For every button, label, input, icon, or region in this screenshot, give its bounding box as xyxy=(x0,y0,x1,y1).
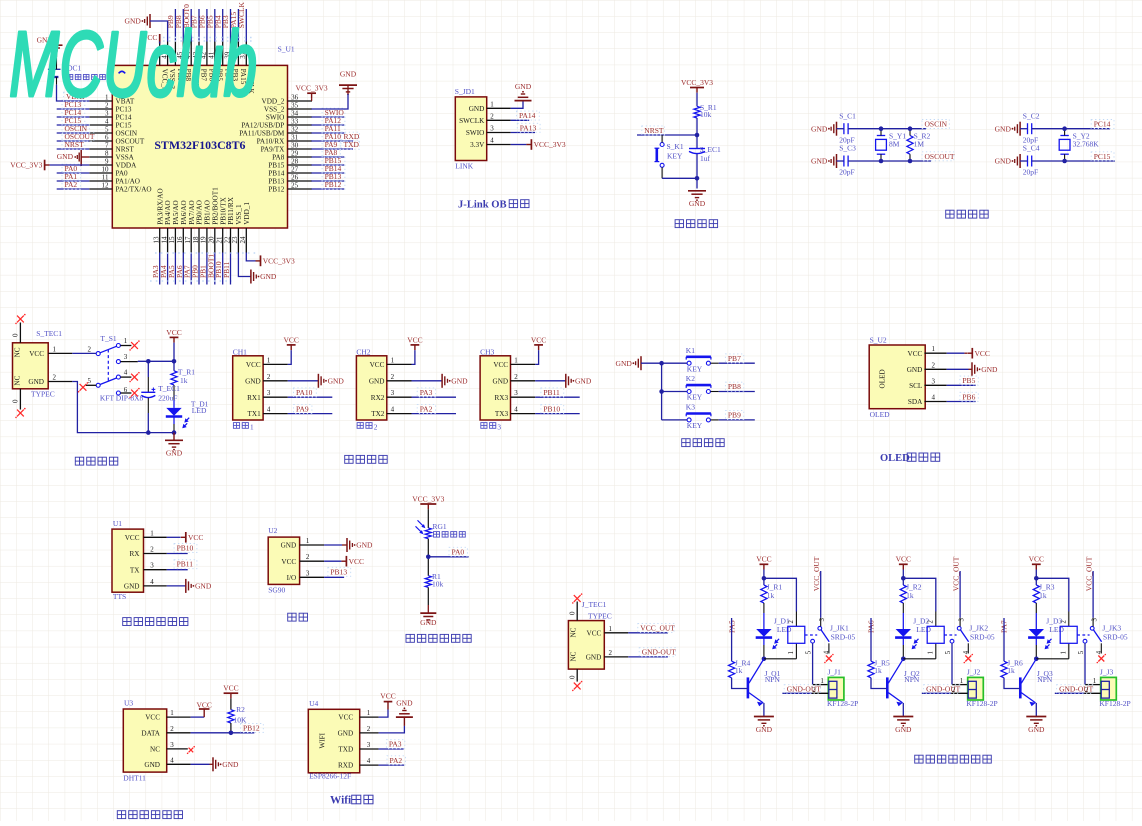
U1 pin 14 PA4/AO xyxy=(160,200,172,252)
U1 pin 24 VDD_1 xyxy=(239,202,251,253)
relay J_JK2 SRD-05 coil xyxy=(927,620,995,655)
svg-text:PA14: PA14 xyxy=(519,111,536,120)
svg-text:0: 0 xyxy=(568,675,576,679)
power VCC_3V3 at S_JD1 pin 4 xyxy=(511,139,566,150)
svg-text:VCC_3V3: VCC_3V3 xyxy=(412,494,444,503)
svg-text:GND: GND xyxy=(575,376,592,385)
wire xyxy=(1035,603,1037,629)
svg-text:2: 2 xyxy=(53,374,57,382)
node PA0 xyxy=(449,547,467,556)
node PB13 xyxy=(322,172,345,181)
svg-text:VCC: VCC xyxy=(281,558,296,566)
wire xyxy=(159,42,161,44)
svg-text:S_U1: S_U1 xyxy=(278,44,295,53)
svg-text:35: 35 xyxy=(291,101,299,109)
U1 pin 30 PA9/TX xyxy=(261,141,312,153)
svg-text:2: 2 xyxy=(88,346,92,354)
node PB10 xyxy=(214,261,223,278)
node PB8 xyxy=(174,15,183,28)
svg-text:4: 4 xyxy=(105,117,109,125)
node PA2 xyxy=(412,404,457,413)
svg-text:1: 1 xyxy=(170,709,174,717)
wire xyxy=(426,539,469,576)
svg-text:GND: GND xyxy=(1028,725,1045,734)
svg-text:2: 2 xyxy=(170,725,174,733)
S_JD1 pin 4 3.3V xyxy=(470,137,511,150)
svg-text:VCC_OUT: VCC_OUT xyxy=(1085,556,1094,591)
svg-text:WIFI: WIFI xyxy=(319,732,327,748)
LED J_D1 xyxy=(756,617,792,650)
ground at top-left with battery DC1 xyxy=(37,36,63,58)
power VCC_3V3 at U1 pin 24 VDD_1 xyxy=(246,253,295,267)
ground relay 1 xyxy=(754,717,774,734)
svg-text:20pF: 20pF xyxy=(1023,168,1038,177)
svg-text:J_J1: J_J1 xyxy=(828,668,842,677)
svg-text:1: 1 xyxy=(490,100,494,108)
node PA2 xyxy=(62,180,80,189)
svg-text:7: 7 xyxy=(105,141,109,149)
section title serial circuit xyxy=(345,455,388,463)
svg-text:4: 4 xyxy=(963,650,970,654)
ground serial xyxy=(412,374,469,388)
wire xyxy=(57,132,90,134)
battery DC1 (coin cell holder) xyxy=(48,57,105,85)
svg-text:GND-OUT: GND-OUT xyxy=(787,685,822,694)
svg-text:RXD: RXD xyxy=(338,762,353,770)
node PB9 xyxy=(719,411,755,420)
ground crystal bottom xyxy=(811,154,836,168)
svg-text:S_C2: S_C2 xyxy=(1023,111,1040,120)
section title power circuit xyxy=(75,457,118,465)
U1 pin 32 PA11/USB/DM xyxy=(239,125,312,137)
svg-text:PB13: PB13 xyxy=(268,178,284,186)
svg-text:U4: U4 xyxy=(309,699,318,708)
node PB15 xyxy=(322,156,345,165)
svg-text:NC: NC xyxy=(14,347,22,357)
wire xyxy=(57,108,90,110)
svg-text:36: 36 xyxy=(291,93,299,101)
no-connect U3 pin 3 xyxy=(187,746,195,754)
svg-text:VCC: VCC xyxy=(407,335,422,344)
svg-text:0: 0 xyxy=(568,611,576,615)
svg-text:10k: 10k xyxy=(700,110,712,119)
S_JD1 pin 1 GND xyxy=(469,100,511,113)
node PB5 xyxy=(205,15,214,28)
power VCC serial xyxy=(283,335,298,364)
wire xyxy=(198,9,200,42)
node OSCOUT xyxy=(62,132,95,141)
svg-text:6: 6 xyxy=(105,133,109,141)
svg-text:VDD_1: VDD_1 xyxy=(243,202,251,225)
section title voice output module xyxy=(123,618,188,626)
node SWIO xyxy=(322,108,345,117)
power VCC pullup xyxy=(223,684,238,699)
node PA15 xyxy=(229,12,238,29)
svg-text:4: 4 xyxy=(124,369,128,377)
svg-text:1k: 1k xyxy=(906,591,914,600)
wire xyxy=(511,132,535,134)
svg-text:30: 30 xyxy=(291,141,299,149)
U1 pin 40 PB4 xyxy=(216,42,232,82)
node RXD xyxy=(341,132,360,141)
U1 pin 11 PA1/AO xyxy=(89,173,140,185)
svg-text:PB15: PB15 xyxy=(268,162,284,170)
svg-text:2: 2 xyxy=(788,620,795,624)
U1 pin 9 VDDA xyxy=(89,157,137,169)
svg-text:OSCOUT: OSCOUT xyxy=(925,152,955,161)
svg-text:VSS_2: VSS_2 xyxy=(264,106,285,114)
wire xyxy=(150,38,256,282)
wire xyxy=(57,180,90,182)
node OSCIN xyxy=(62,124,89,133)
svg-text:SCL: SCL xyxy=(909,382,922,390)
svg-text:S_C4: S_C4 xyxy=(1023,144,1040,153)
svg-text:VCC: VCC xyxy=(338,714,353,722)
ground crystal top xyxy=(811,122,836,136)
U1 pin 17 PA7/AO xyxy=(184,200,196,252)
wire xyxy=(696,93,698,107)
wire xyxy=(172,417,177,435)
power VCC serial xyxy=(407,335,422,364)
svg-text:26: 26 xyxy=(291,173,299,181)
U1 pin 6 OSCOUT xyxy=(89,133,145,145)
relay J_JK3 switch xyxy=(1078,618,1103,655)
svg-text:5: 5 xyxy=(105,125,109,133)
node VCC_OUT relay 2 xyxy=(952,556,961,626)
node PA9 xyxy=(288,404,333,413)
svg-text:J_J3: J_J3 xyxy=(1100,668,1114,677)
node GND-OUT relay 1 xyxy=(782,685,828,694)
power VCC at U1 pin 48 xyxy=(142,33,160,44)
node PB11 xyxy=(222,261,231,278)
U1 pin 1 VBAT xyxy=(89,93,135,105)
svg-text:VDD_2: VDD_2 xyxy=(262,98,285,106)
ground relay 3 xyxy=(1026,717,1046,734)
svg-text:RX3: RX3 xyxy=(495,394,509,402)
U1 pin 22 PB11/RX xyxy=(223,196,235,252)
section title reset circuit xyxy=(675,220,718,228)
resistor R1 10k xyxy=(425,572,443,589)
wire xyxy=(206,9,208,42)
svg-text:1: 1 xyxy=(391,356,395,364)
U1 pin 2 PC13 xyxy=(89,101,132,113)
resistor R2 10K xyxy=(228,698,247,724)
U1 pin 27 PB14 xyxy=(268,165,312,177)
svg-text:33: 33 xyxy=(291,117,299,125)
node PB4 xyxy=(213,15,222,28)
svg-text:TTS: TTS xyxy=(113,592,126,601)
no-connect relay pin 4 xyxy=(1097,654,1107,664)
svg-text:PA7/AO: PA7/AO xyxy=(188,200,196,225)
wire xyxy=(174,9,176,42)
U1 pin 26 PB13 xyxy=(268,173,312,185)
svg-text:2: 2 xyxy=(609,649,613,657)
node BOOT0 xyxy=(182,4,191,28)
svg-text:PB9: PB9 xyxy=(728,411,741,420)
node PA10 xyxy=(288,388,333,397)
svg-text:2: 2 xyxy=(391,373,395,381)
svg-text:J_JK2: J_JK2 xyxy=(969,623,988,632)
ground at S_U2 pin 2 xyxy=(947,362,998,376)
svg-text:PB2/BOOT1: PB2/BOOT1 xyxy=(211,187,219,225)
svg-text:VCC: VCC xyxy=(349,557,364,566)
U1 pin 18 PB0/AO xyxy=(192,200,204,252)
ground serial xyxy=(535,374,592,388)
svg-text:S_U2: S_U2 xyxy=(870,335,887,344)
svg-text:32: 32 xyxy=(291,125,299,133)
svg-text:PC15: PC15 xyxy=(1094,152,1111,161)
node PA0 xyxy=(62,164,80,173)
wire xyxy=(311,98,313,101)
svg-text:SWIO: SWIO xyxy=(466,129,484,137)
section title light collection circuit xyxy=(406,634,471,642)
svg-text:GND: GND xyxy=(907,366,923,374)
svg-text:DATA: DATA xyxy=(141,729,160,737)
svg-text:PB14: PB14 xyxy=(268,170,284,178)
svg-text:PB10/TX: PB10/TX xyxy=(219,196,227,224)
power VCC at S_U2 pin 1 xyxy=(947,348,990,359)
node PA6 xyxy=(175,265,184,278)
wire xyxy=(198,253,200,285)
wire xyxy=(1032,126,1115,163)
wire xyxy=(150,21,168,42)
ground crystal bottom xyxy=(995,154,1020,168)
node PA12 xyxy=(322,116,345,125)
svg-text:SG90: SG90 xyxy=(268,585,285,594)
svg-text:1: 1 xyxy=(250,422,254,431)
svg-text:OSCIN: OSCIN xyxy=(925,120,948,129)
svg-text:4: 4 xyxy=(514,406,518,414)
svg-text:GND: GND xyxy=(616,359,633,368)
svg-text:3: 3 xyxy=(367,741,371,749)
wire xyxy=(230,253,232,285)
svg-text:2: 2 xyxy=(267,373,271,381)
svg-text:VCC_3V3: VCC_3V3 xyxy=(10,161,42,170)
wire xyxy=(763,603,765,629)
svg-text:1: 1 xyxy=(150,529,154,537)
wire xyxy=(191,723,255,735)
wire xyxy=(311,116,344,118)
svg-text:GND: GND xyxy=(756,725,773,734)
relay J_JK2 switch xyxy=(945,618,970,655)
svg-text:GND: GND xyxy=(689,199,706,208)
transistor J_Q2 NPN xyxy=(887,659,920,707)
svg-text:RX1: RX1 xyxy=(247,394,261,402)
switch T_S1 KFT DIP-8X8 xyxy=(86,334,144,402)
svg-text:VDDA: VDDA xyxy=(116,162,138,170)
svg-text:34: 34 xyxy=(291,109,299,117)
svg-text:VCC_3V3: VCC_3V3 xyxy=(296,84,328,93)
wire xyxy=(57,148,90,150)
LED T_D1 xyxy=(166,400,209,429)
svg-text:1: 1 xyxy=(928,651,935,654)
LED J_D3 xyxy=(1028,617,1064,650)
svg-text:1: 1 xyxy=(367,709,371,717)
wire xyxy=(1004,678,1020,689)
wire xyxy=(662,154,699,189)
ground at U1 pin 8 VSSA xyxy=(57,150,90,166)
svg-text:GND: GND xyxy=(28,378,44,386)
svg-text:GND-OUT: GND-OUT xyxy=(926,685,961,694)
svg-text:ESP8266-12F: ESP8266-12F xyxy=(309,772,351,781)
wire xyxy=(214,253,216,285)
wire xyxy=(311,156,344,158)
node VCC_OUT relay 3 xyxy=(1085,556,1094,626)
svg-text:VCC: VCC xyxy=(283,335,298,344)
node PB13 xyxy=(324,567,351,577)
svg-text:9: 9 xyxy=(105,157,109,165)
svg-text:3: 3 xyxy=(514,389,518,397)
no-connect marks on T_S1 xyxy=(78,340,140,398)
svg-text:1M: 1M xyxy=(914,140,925,149)
sensor U3 DHT11 xyxy=(123,699,190,783)
svg-text:PA11/USB/DM: PA11/USB/DM xyxy=(239,130,285,138)
U1 pin 39 PB3 xyxy=(223,42,239,82)
svg-text:PB13: PB13 xyxy=(330,567,347,576)
wire xyxy=(167,253,169,285)
node PA9 xyxy=(322,140,340,149)
svg-text:VCC: VCC xyxy=(188,533,203,542)
svg-text:PC14: PC14 xyxy=(1094,120,1111,129)
section title crystal circuit xyxy=(946,210,989,218)
capacitor S_EC1 1uf xyxy=(689,145,721,163)
resistor J_R3 1k xyxy=(1033,583,1055,604)
svg-text:29: 29 xyxy=(291,149,299,157)
power VCC relay 3 xyxy=(1029,555,1044,570)
wire xyxy=(901,570,936,627)
U1 pin 45 PB8 xyxy=(176,42,192,82)
push button K1 KEY xyxy=(662,346,719,374)
svg-text:1k: 1k xyxy=(767,591,775,600)
U1 pin 46 PB9 xyxy=(168,42,184,82)
svg-text:PA3/RX/AO: PA3/RX/AO xyxy=(156,188,164,224)
wire xyxy=(901,638,936,661)
svg-text:1: 1 xyxy=(514,356,518,364)
svg-text:VSS_1: VSS_1 xyxy=(235,204,243,225)
connector J_TEC1 TYPEC output xyxy=(568,600,611,669)
svg-text:220uF: 220uF xyxy=(158,394,177,403)
capacitor S_C1 20pF xyxy=(839,111,856,144)
svg-text:GND: GND xyxy=(144,761,160,769)
node PA11 xyxy=(322,124,345,133)
svg-text:U2: U2 xyxy=(268,526,277,535)
svg-text:31: 31 xyxy=(291,133,299,141)
terminal J_J3 KF128-2P xyxy=(1085,668,1131,709)
module U2 SG90 servo xyxy=(268,526,324,594)
power VCC_3V3 at U1 pin 9 VDDA xyxy=(10,160,49,171)
svg-text:PA13: PA13 xyxy=(520,123,537,132)
svg-text:NC: NC xyxy=(150,746,160,754)
U1 pin 33 PA12/USB/DP xyxy=(241,117,312,129)
resistor J_R5 1k base xyxy=(868,618,890,678)
S_JD1 pin 3 SWIO xyxy=(466,125,511,138)
svg-text:OLED: OLED xyxy=(880,453,910,464)
node PB1 xyxy=(198,265,207,278)
U1 pin 20 PB2/BOOT1 xyxy=(208,187,220,253)
wire xyxy=(311,132,344,134)
svg-text:Wifi: Wifi xyxy=(330,795,351,807)
U1 pin 4 PC15 xyxy=(89,117,132,129)
node PA3 xyxy=(379,740,405,749)
wire xyxy=(837,129,844,161)
LED J_D2 xyxy=(895,617,931,650)
wire xyxy=(1020,129,1027,161)
node PA2 xyxy=(379,756,406,765)
svg-text:PB7: PB7 xyxy=(728,354,741,363)
S_JD1 pin 2 SWCLK xyxy=(459,112,511,125)
wire xyxy=(311,148,353,150)
svg-text:PA12/USB/DP: PA12/USB/DP xyxy=(241,122,284,130)
relay J_JK1 switch xyxy=(805,618,830,655)
node PB12 xyxy=(322,180,345,189)
connector S_TEC1 TYPEC xyxy=(13,329,63,399)
capacitor S_C3 20pF xyxy=(839,144,856,177)
svg-text:VCC: VCC xyxy=(370,361,385,369)
U1 pin 44 BOOT0 xyxy=(184,42,200,93)
display S_U2 OLED xyxy=(869,335,947,419)
svg-text:VSSA: VSSA xyxy=(116,154,135,162)
wire xyxy=(57,188,90,190)
svg-text:S_JD1: S_JD1 xyxy=(455,87,475,96)
node PB7 xyxy=(719,354,755,363)
U1 pin 12 PA2/TX/AO xyxy=(89,181,151,193)
node PA10 xyxy=(322,132,345,141)
U1 pin 10 PA0 xyxy=(89,165,128,177)
module U4 ESP8266 Wifi xyxy=(308,699,378,781)
svg-text:4: 4 xyxy=(490,137,494,145)
power VCC_3V3 light sensor xyxy=(412,494,444,509)
svg-text:3: 3 xyxy=(124,353,128,361)
resistor J_R1 1k xyxy=(761,583,783,604)
svg-text:KEY: KEY xyxy=(667,151,683,160)
capacitor S_C4 20pF xyxy=(1023,144,1040,177)
ground relay 2 xyxy=(893,717,913,734)
svg-text:SDA: SDA xyxy=(908,398,923,406)
wire xyxy=(72,352,96,354)
svg-text:GND: GND xyxy=(586,654,602,662)
connector S_JD1 J-Link OB xyxy=(455,87,487,171)
svg-text:SRD-05: SRD-05 xyxy=(831,632,856,641)
svg-text:T_S1: T_S1 xyxy=(100,334,117,343)
svg-text:2: 2 xyxy=(514,373,518,381)
wire xyxy=(311,124,344,126)
svg-text:VCC_OUT: VCC_OUT xyxy=(812,556,821,591)
svg-text:3: 3 xyxy=(819,618,826,622)
svg-text:K1: K1 xyxy=(686,346,695,355)
U1 pin 31 PA10/RX xyxy=(257,133,312,145)
resistor T_R1 1k xyxy=(171,368,195,386)
svg-text:PA6/AO: PA6/AO xyxy=(180,200,188,225)
ground at S_JD1 pin 1 xyxy=(511,82,532,108)
svg-text:TX1: TX1 xyxy=(248,410,262,418)
svg-text:1: 1 xyxy=(1093,677,1097,685)
svg-text:16: 16 xyxy=(176,236,184,244)
U1 pin 43 PB7 xyxy=(192,42,208,82)
svg-text:3: 3 xyxy=(958,618,965,622)
U1 pin 42 PB6 xyxy=(200,42,216,82)
svg-text:PA2/TX/AO: PA2/TX/AO xyxy=(116,186,152,194)
svg-text:VCC: VCC xyxy=(166,328,181,337)
svg-text:13: 13 xyxy=(153,236,161,244)
svg-text:3: 3 xyxy=(1091,618,1098,622)
svg-text:GND: GND xyxy=(981,365,998,374)
wire xyxy=(72,382,174,433)
terminal J_J2 KF128-2P xyxy=(952,668,998,709)
svg-text:VCC_3V3: VCC_3V3 xyxy=(534,140,566,149)
U1 pin 3 PC14 xyxy=(89,109,132,121)
U1 pin 28 PB15 xyxy=(268,157,312,169)
ground at U1-TTS pin 4 xyxy=(167,579,212,593)
